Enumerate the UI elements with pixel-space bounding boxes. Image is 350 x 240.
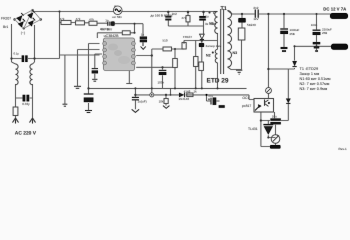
svg-text:25В: 25В	[322, 31, 327, 35]
svg-text:47k: 47k	[76, 17, 81, 21]
svg-text:DC 12 V 7A: DC 12 V 7A	[323, 6, 346, 11]
svg-text:1kV: 1kV	[253, 17, 258, 21]
svg-text:47k: 47k	[89, 18, 94, 22]
svg-text:1N4148: 1N4148	[179, 97, 190, 101]
svg-text:47k: 47k	[181, 16, 186, 20]
svg-text:47k: 47k	[60, 17, 65, 21]
svg-text:Rev-1: Rev-1	[339, 147, 348, 151]
svg-text:2n2: 2n2	[253, 6, 258, 10]
svg-text:0.33у: 0.33у	[22, 102, 30, 106]
svg-text:до 160 В 600Хz: до 160 В 600Хz	[151, 13, 174, 17]
svg-text:0.1у: 0.1у	[14, 52, 20, 56]
svg-text:510: 510	[163, 39, 168, 43]
svg-text:1u: 1u	[205, 14, 209, 18]
svg-text:SB240: SB240	[247, 23, 256, 27]
svg-text:1u(uF): 1u(uF)	[138, 99, 147, 103]
svg-text:N3- 7 вит 0.9мм: N3- 7 вит 0.9мм	[300, 87, 328, 91]
svg-text:Зазор 1 мм: Зазор 1 мм	[300, 72, 320, 76]
svg-text:N1-60 вит 0.51мм: N1-60 вит 0.51мм	[300, 77, 331, 81]
svg-text:10k: 10k	[159, 99, 164, 103]
svg-text:FR107: FR107	[183, 35, 192, 39]
svg-text:FR207: FR207	[1, 17, 11, 21]
svg-text:4n7 1kV: 4n7 1kV	[100, 27, 113, 31]
svg-text:25В: 25В	[290, 32, 295, 36]
svg-text:T1: T1	[221, 6, 227, 12]
svg-text:ETD 29: ETD 29	[207, 78, 229, 85]
svg-text:1k: 1k	[194, 90, 198, 94]
svg-text:uC3842B: uC3842B	[104, 34, 120, 38]
svg-text:100n: 100n	[158, 81, 165, 85]
svg-text:pc817: pc817	[242, 104, 251, 108]
svg-text:N2- 7 вит 0.57мм: N2- 7 вит 0.57мм	[300, 82, 330, 86]
svg-text:OC1: OC1	[242, 96, 249, 100]
svg-text:100n: 100n	[311, 23, 318, 27]
svg-text:Br1: Br1	[3, 25, 8, 29]
svg-text:(~): (~)	[21, 31, 25, 35]
svg-text:Затвор 1мм: Затвор 1мм	[206, 44, 222, 48]
svg-text:10u: 10u	[272, 115, 277, 119]
svg-text:N2: N2	[206, 54, 211, 58]
svg-text:4148: 4148	[184, 89, 191, 93]
svg-text:1u: 1u	[141, 33, 145, 37]
svg-text:TL431: TL431	[248, 127, 258, 131]
svg-text:N1: N1	[209, 21, 214, 25]
svg-text:нзт 5Вт: нзт 5Вт	[112, 15, 122, 19]
svg-text:47u: 47u	[208, 94, 213, 98]
svg-text:2n2: 2n2	[172, 12, 177, 16]
svg-text:T1 -ETD29: T1 -ETD29	[300, 67, 319, 71]
svg-text:N3: N3	[233, 51, 238, 55]
svg-text:1n: 1n	[105, 18, 109, 22]
svg-text:AC 220 V: AC 220 V	[15, 131, 37, 137]
